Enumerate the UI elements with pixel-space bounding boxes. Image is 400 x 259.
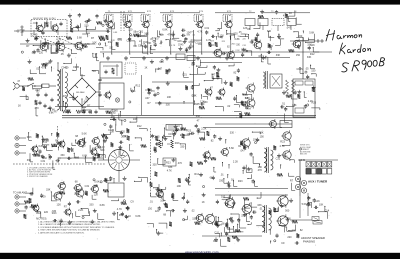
ratio detector diode D5 bbox=[145, 89, 152, 91]
svg-text:T2: T2 bbox=[249, 11, 252, 13]
power transformer T1 primary bbox=[57, 70, 60, 110]
svg-text:C14: C14 bbox=[325, 210, 330, 213]
wire Q6 emitter drop bbox=[111, 30, 113, 55]
svg-text:560: 560 bbox=[285, 210, 290, 213]
svg-text:560: 560 bbox=[111, 116, 116, 119]
wire preamp divider vertical (dashed) bbox=[57, 126, 59, 142]
transistor Q7 (IF amp) bbox=[125, 21, 131, 27]
svg-text:470: 470 bbox=[167, 33, 172, 36]
svg-text:4.7K: 4.7K bbox=[117, 208, 122, 211]
front-end value labels bbox=[70, 28, 73, 33]
svg-text:12K: 12K bbox=[57, 204, 62, 207]
handwritten SR900B bbox=[342, 58, 385, 72]
svg-text:10K: 10K bbox=[258, 166, 263, 169]
component row box 2 bbox=[258, 19, 268, 26]
svg-text:NOTES:: NOTES: bbox=[36, 217, 47, 221]
bridge rectifier D1-D4 bbox=[68, 78, 96, 106]
capacitor C21 bbox=[51, 98, 53, 100]
svg-text:10K: 10K bbox=[177, 185, 182, 188]
svg-text:150: 150 bbox=[296, 54, 301, 57]
svg-text:.02: .02 bbox=[85, 97, 89, 100]
svg-text:2.2K: 2.2K bbox=[111, 40, 116, 42]
svg-text:C31: C31 bbox=[127, 39, 132, 42]
svg-text:4.7K: 4.7K bbox=[167, 170, 172, 173]
wire speaker vertical bbox=[299, 160, 301, 196]
svg-text:C945: C945 bbox=[61, 67, 68, 70]
svg-text:ADJUST SPEAKER: ADJUST SPEAKER bbox=[301, 236, 325, 240]
transistor Q6 (IF amp) bbox=[107, 21, 113, 27]
svg-text:560: 560 bbox=[283, 156, 288, 159]
svg-text:C31: C31 bbox=[41, 160, 46, 163]
wire mid vertical bbox=[193, 30, 195, 115]
svg-text:2.2K: 2.2K bbox=[172, 132, 177, 135]
PS lower-left parts bbox=[35, 107, 37, 116]
input jack J10 bbox=[15, 209, 19, 213]
ground G2 bbox=[107, 56, 109, 58]
svg-text:82: 82 bbox=[211, 140, 214, 143]
svg-text:150: 150 bbox=[238, 36, 241, 38]
svg-text:.047: .047 bbox=[240, 150, 245, 153]
enclosure mid parts bbox=[312, 87, 315, 92]
wire speaker rail bbox=[298, 159, 338, 161]
wire speaker drop 2 bbox=[307, 193, 309, 216]
svg-text:C31: C31 bbox=[276, 158, 281, 161]
resistor R50 bbox=[286, 80, 289, 94]
transistor Q3 (mixer) bbox=[40, 43, 48, 51]
svg-text:AUX / TUNER: AUX / TUNER bbox=[308, 180, 328, 184]
svg-text:C31: C31 bbox=[139, 31, 144, 34]
svg-text:T1: T1 bbox=[108, 11, 111, 13]
svg-text:47: 47 bbox=[17, 80, 20, 83]
svg-text:1K: 1K bbox=[144, 67, 147, 70]
wire Q8 emitter drop bbox=[147, 30, 149, 55]
wire IF lower bus bbox=[100, 51, 332, 53]
svg-text:R23: R23 bbox=[119, 214, 124, 217]
transistor Q30 (driver) bbox=[283, 132, 291, 140]
svg-text:R7: R7 bbox=[54, 111, 58, 114]
transistor Q32 bbox=[54, 192, 62, 200]
svg-text:10K: 10K bbox=[192, 94, 197, 97]
svg-text:10K: 10K bbox=[177, 40, 182, 43]
svg-text:4.7K: 4.7K bbox=[280, 145, 285, 148]
wire speaker drop 1 bbox=[299, 196, 301, 218]
svg-text:220: 220 bbox=[39, 52, 44, 55]
wire mid vertical left bbox=[141, 75, 143, 115]
svg-text:330: 330 bbox=[89, 203, 94, 206]
svg-text:4.7K: 4.7K bbox=[283, 15, 288, 18]
component row box 3 bbox=[272, 19, 284, 26]
svg-text:4.7K: 4.7K bbox=[171, 45, 176, 47]
transistor Q32a bbox=[59, 183, 66, 190]
mid column parts bbox=[201, 94, 202, 95]
wire AF top bbox=[200, 62, 242, 64]
component row box 1 bbox=[245, 19, 255, 26]
svg-text:C31: C31 bbox=[85, 185, 90, 188]
power amp right parts bbox=[287, 217, 289, 219]
svg-text:12K: 12K bbox=[310, 44, 315, 47]
enclosure box bbox=[293, 79, 315, 117]
transistor Q42 (power out) bbox=[278, 216, 288, 226]
svg-text:6.8K: 6.8K bbox=[113, 32, 118, 34]
wire AM antenna vertical bbox=[302, 37, 304, 79]
svg-text:470: 470 bbox=[157, 37, 161, 39]
IF transformer IFT5 bbox=[194, 14, 203, 22]
svg-text:5.6K: 5.6K bbox=[309, 31, 314, 34]
tone switch block bbox=[163, 158, 176, 166]
transistor Q28 bbox=[222, 149, 229, 156]
ground G6 bbox=[197, 56, 199, 58]
enclosure top parts bbox=[295, 81, 303, 85]
PS capacitor bank bbox=[39, 101, 41, 103]
mid-left labels bbox=[148, 91, 150, 93]
transistor Q1 (FM RF amp) bbox=[37, 25, 43, 31]
wire Q10 emitter drop bbox=[201, 30, 203, 55]
svg-text:47: 47 bbox=[210, 87, 213, 90]
svg-text:330: 330 bbox=[236, 44, 241, 46]
svg-text:.01: .01 bbox=[220, 174, 224, 177]
svg-text:R7: R7 bbox=[37, 91, 41, 94]
svg-text:C945: C945 bbox=[241, 49, 247, 51]
svg-text:1K: 1K bbox=[18, 105, 21, 108]
svg-text:.02: .02 bbox=[191, 210, 195, 213]
svg-text:C945: C945 bbox=[31, 34, 38, 37]
svg-text:C945: C945 bbox=[143, 42, 149, 44]
svg-text:.047: .047 bbox=[145, 97, 150, 100]
svg-text:.05: .05 bbox=[247, 28, 251, 31]
tone upper parts extra bbox=[197, 128, 199, 130]
svg-text:.047: .047 bbox=[83, 101, 88, 104]
svg-text:5.6K: 5.6K bbox=[302, 203, 307, 206]
transistor Q17 bbox=[206, 89, 212, 95]
svg-text:100: 100 bbox=[221, 195, 226, 198]
wire PS inner rail bbox=[55, 106, 104, 108]
svg-text:82: 82 bbox=[300, 229, 303, 232]
decoder value labels bbox=[289, 49, 295, 52]
svg-text:C945: C945 bbox=[178, 45, 184, 47]
AF centre parts bbox=[246, 104, 248, 106]
svg-text:470: 470 bbox=[35, 107, 40, 110]
transistor Q27 (pre-driver) bbox=[204, 152, 210, 158]
power transformer T1 core bbox=[60, 69, 62, 111]
output jacks J4-J7 bbox=[295, 176, 300, 181]
transistor Q8 (IF amp) bbox=[143, 21, 149, 27]
svg-text:R23: R23 bbox=[210, 40, 213, 42]
svg-text:C31: C31 bbox=[205, 27, 210, 30]
ground G3 bbox=[125, 56, 127, 58]
svg-text:R23: R23 bbox=[166, 162, 171, 165]
svg-text:330: 330 bbox=[153, 164, 158, 167]
svg-text:82: 82 bbox=[138, 35, 141, 38]
filter capacitor C25 bbox=[67, 110, 69, 112]
svg-text:100: 100 bbox=[160, 199, 165, 202]
wire RF row bbox=[20, 43, 95, 45]
wire box to rail bbox=[111, 109, 113, 116]
volume pot VR2 bbox=[171, 140, 174, 148]
svg-text:5. FRONT OF CHASSIS: 5. FRONT OF CHASSIS bbox=[27, 175, 48, 178]
wire box stubs bbox=[249, 26, 251, 31]
svg-text:10K: 10K bbox=[92, 41, 97, 44]
svg-text:330: 330 bbox=[180, 145, 185, 148]
handwritten Kardon bbox=[340, 43, 371, 54]
svg-text:560: 560 bbox=[159, 61, 164, 64]
svg-text:R23: R23 bbox=[27, 136, 32, 139]
svg-text:R7: R7 bbox=[87, 105, 91, 108]
AF stage labels bbox=[216, 97, 222, 100]
svg-text:68: 68 bbox=[75, 181, 78, 184]
transistor Q39 (power driver) bbox=[225, 198, 234, 207]
svg-text:33K: 33K bbox=[27, 159, 32, 162]
transistor Q41 (power out) bbox=[278, 196, 288, 206]
IF strip value labels bbox=[128, 40, 135, 42]
svg-text:150: 150 bbox=[156, 68, 161, 71]
input jack J2 bbox=[15, 143, 19, 147]
IF transformer IFT4 bbox=[163, 14, 172, 22]
svg-text:330: 330 bbox=[203, 101, 208, 104]
input jack J1 bbox=[15, 136, 19, 140]
filter capacitor C23 bbox=[99, 93, 101, 95]
svg-text:R7: R7 bbox=[91, 37, 95, 40]
svg-text:6.8K: 6.8K bbox=[235, 38, 240, 41]
capacitor C30 bbox=[154, 93, 156, 95]
transistor Q29 (driver) bbox=[242, 139, 250, 147]
transistor Q35 bbox=[65, 209, 71, 215]
power switch S1 bbox=[28, 83, 34, 86]
wire tuning gang link (dashed) bbox=[120, 11, 122, 31]
svg-text:PHASING: PHASING bbox=[303, 240, 315, 244]
svg-text:R12: R12 bbox=[36, 212, 41, 215]
phono switch box bbox=[108, 183, 124, 197]
svg-text:.05: .05 bbox=[82, 145, 86, 148]
tone control parts bbox=[197, 162, 203, 165]
svg-text:2.2K: 2.2K bbox=[308, 100, 313, 103]
svg-text:47: 47 bbox=[213, 74, 216, 77]
speaker terminal strip row 1 bbox=[306, 162, 311, 168]
svg-text:R7: R7 bbox=[64, 206, 68, 209]
svg-text:330: 330 bbox=[60, 154, 65, 157]
svg-text:R12: R12 bbox=[194, 173, 199, 176]
svg-text:12K: 12K bbox=[155, 210, 160, 213]
wire Q9 emitter drop bbox=[170, 30, 172, 55]
svg-text:33K: 33K bbox=[307, 56, 312, 59]
ch2 parts bbox=[69, 220, 71, 222]
input jack J3 bbox=[15, 151, 19, 155]
svg-text:1K: 1K bbox=[128, 215, 131, 218]
svg-text:470: 470 bbox=[178, 162, 183, 165]
AC plug P1 bbox=[15, 84, 19, 88]
decoder top labels bbox=[287, 17, 289, 22]
svg-text:220: 220 bbox=[44, 211, 49, 214]
coil L1 bbox=[70, 19, 71, 27]
svg-text:560: 560 bbox=[75, 157, 80, 160]
terminal post TP1 bbox=[317, 40, 319, 42]
svg-text:.01: .01 bbox=[259, 208, 263, 211]
svg-text:220: 220 bbox=[121, 131, 126, 134]
transistor Q4 (AM RF) bbox=[57, 43, 65, 51]
svg-text:.02: .02 bbox=[36, 68, 40, 71]
svg-text:6.8K: 6.8K bbox=[135, 215, 140, 218]
transistor Q10 (IF amp) bbox=[197, 21, 203, 27]
svg-text:220: 220 bbox=[287, 236, 292, 239]
transistor Q2 (FM osc) bbox=[52, 25, 58, 31]
ch1 extra parts bbox=[44, 145, 46, 147]
svg-text:R12: R12 bbox=[137, 125, 142, 128]
svg-text:33K: 33K bbox=[46, 189, 51, 192]
transistor Q20 (AF driver) bbox=[247, 99, 255, 107]
wire tone section vertical (dashed) bbox=[150, 128, 152, 196]
svg-text:4.7K: 4.7K bbox=[104, 38, 109, 40]
svg-text:C9: C9 bbox=[281, 242, 285, 245]
svg-text:47: 47 bbox=[200, 42, 203, 44]
svg-text:10K: 10K bbox=[117, 38, 122, 41]
svg-text:.01: .01 bbox=[192, 35, 196, 37]
transistor Q21 bbox=[270, 121, 277, 128]
MPX filter block bbox=[166, 125, 182, 131]
transistor Q32b bbox=[75, 185, 82, 192]
transistor Q24 bbox=[78, 140, 85, 147]
svg-text:150: 150 bbox=[84, 24, 89, 27]
transistor Q36 bbox=[157, 191, 164, 198]
svg-text:6.8K: 6.8K bbox=[162, 29, 167, 32]
svg-text:R12: R12 bbox=[136, 85, 141, 88]
speaker terminal strip row 2 bbox=[306, 169, 311, 175]
svg-text:150: 150 bbox=[148, 208, 153, 211]
stereo lamp driver box bbox=[99, 83, 124, 109]
transistor Q22 (preamp) bbox=[32, 146, 38, 152]
svg-text:R23: R23 bbox=[52, 212, 57, 215]
svg-text:5.6K: 5.6K bbox=[77, 37, 82, 40]
svg-text:470: 470 bbox=[151, 90, 156, 93]
driver transformer T3 bbox=[264, 148, 266, 172]
svg-text:2.2K: 2.2K bbox=[233, 161, 238, 164]
wire protect rail bbox=[290, 219, 312, 221]
svg-text:1K: 1K bbox=[211, 44, 214, 47]
svg-text:.05: .05 bbox=[305, 68, 309, 71]
svg-text:C31: C31 bbox=[242, 45, 247, 47]
svg-text:330: 330 bbox=[241, 215, 246, 218]
transistor Q25 bbox=[93, 138, 100, 145]
svg-text:33K: 33K bbox=[276, 54, 281, 57]
relay block bbox=[280, 121, 292, 128]
shield box small bbox=[125, 63, 136, 74]
filter capacitor C22 bbox=[99, 78, 101, 80]
svg-text:4.7K: 4.7K bbox=[197, 30, 202, 33]
wire power amp bottom rail bbox=[202, 235, 262, 237]
svg-text:C945: C945 bbox=[108, 129, 115, 132]
IF strip value labels right bbox=[215, 30, 219, 32]
bottom border bar bbox=[0, 253, 400, 259]
stereo beacon lamp LP1 bbox=[115, 98, 119, 102]
svg-text:R7: R7 bbox=[26, 45, 30, 48]
svg-text:R23: R23 bbox=[280, 141, 285, 144]
transistor Q14 (AF pre) bbox=[254, 41, 262, 49]
svg-text:C945: C945 bbox=[112, 110, 119, 113]
svg-text:R7: R7 bbox=[102, 147, 106, 150]
transistor Q13 (AM osc) bbox=[228, 52, 235, 59]
transistor Q37 (power out) bbox=[205, 214, 214, 223]
svg-text:IFT2: IFT2 bbox=[147, 11, 152, 13]
wire driver rail bbox=[203, 127, 282, 129]
svg-text:IFT4: IFT4 bbox=[199, 11, 204, 13]
transistor Q18 bbox=[219, 89, 225, 95]
svg-text:150: 150 bbox=[130, 35, 134, 37]
AM antenna parts bbox=[296, 37, 303, 39]
svg-text:C945: C945 bbox=[297, 68, 304, 71]
coupling parts ch1 bbox=[41, 155, 43, 157]
front-end mid labels bbox=[106, 35, 109, 40]
svg-text:2.2K: 2.2K bbox=[235, 50, 240, 52]
svg-text:TO AM ANT: TO AM ANT bbox=[13, 191, 27, 195]
svg-text:330: 330 bbox=[219, 180, 224, 183]
svg-text:4. SWITCHES SHOWN IN AM POSITI: 4. SWITCHES SHOWN IN AM POSITION, VOLUME… bbox=[38, 229, 100, 232]
power amp parts bbox=[216, 200, 218, 202]
bias resistor block bbox=[312, 217, 319, 221]
svg-text:.047: .047 bbox=[286, 26, 291, 29]
svg-text:330: 330 bbox=[45, 139, 50, 142]
svg-text:68: 68 bbox=[75, 135, 78, 138]
wire top IF bus segment 1 bbox=[105, 12, 145, 14]
svg-text:10K: 10K bbox=[167, 96, 172, 99]
IF transformer IFT2 bbox=[123, 14, 132, 22]
power amp mid extra bbox=[231, 219, 233, 221]
wire mid-right rail bbox=[215, 123, 292, 125]
interstage transformer T2 bbox=[263, 72, 265, 88]
svg-text:.05: .05 bbox=[60, 53, 64, 56]
wire IF lower bus 2 bbox=[130, 57, 290, 59]
transistor Q40 (power driver) bbox=[242, 204, 251, 213]
svg-text:C9: C9 bbox=[130, 201, 134, 204]
svg-text:10K: 10K bbox=[231, 35, 236, 37]
filter capacitor C24 bbox=[89, 110, 91, 112]
svg-text:T4: T4 bbox=[294, 11, 297, 13]
svg-text:5.6K: 5.6K bbox=[82, 132, 87, 135]
svg-text:2. ALL CAPACITOR VALUES IN MIC: 2. ALL CAPACITOR VALUES IN MICROFARADS U… bbox=[38, 223, 101, 226]
svg-text:.02: .02 bbox=[227, 105, 231, 108]
svg-text:220: 220 bbox=[122, 135, 127, 138]
driver right parts bbox=[299, 181, 300, 182]
svg-text:C9: C9 bbox=[138, 45, 142, 48]
svg-text:5.6K: 5.6K bbox=[94, 181, 99, 184]
svg-text:T3: T3 bbox=[271, 11, 274, 13]
svg-text:2.2K: 2.2K bbox=[201, 127, 206, 130]
svg-text:FM FRONT END 10.7MC: FM FRONT END 10.7MC bbox=[33, 18, 56, 20]
transistor Q12 (AM conv) bbox=[214, 49, 222, 57]
transistor Q32c bbox=[92, 186, 99, 193]
balance pot VR1 bbox=[159, 140, 162, 148]
svg-text:220: 220 bbox=[243, 39, 246, 41]
svg-text:4.7K: 4.7K bbox=[41, 66, 46, 69]
input jack J9 bbox=[15, 202, 19, 206]
transistor Q26 bbox=[91, 149, 97, 155]
svg-text:330: 330 bbox=[292, 230, 297, 233]
selector upper parts bbox=[129, 145, 131, 151]
power supply labels bbox=[73, 96, 75, 98]
wire Q7 emitter drop bbox=[129, 30, 131, 55]
selector lower parts bbox=[124, 176, 126, 178]
svg-text:.047: .047 bbox=[31, 51, 36, 54]
svg-text:47: 47 bbox=[190, 32, 193, 34]
top border bar bbox=[0, 0, 400, 5]
ground G4 bbox=[143, 56, 145, 58]
svg-text:SR-3AM: SR-3AM bbox=[76, 91, 84, 94]
wire top IF bus segment 4 bbox=[262, 12, 310, 14]
selector wires bbox=[98, 159, 109, 161]
B+ filter resistor R41 bbox=[76, 110, 85, 113]
wire power amp top rail bbox=[215, 194, 288, 196]
svg-text:68: 68 bbox=[210, 176, 213, 179]
wire B+ rail lower bbox=[62, 117, 316, 119]
wire mid horizontal 1 bbox=[152, 81, 193, 83]
svg-text:33K: 33K bbox=[259, 131, 264, 134]
